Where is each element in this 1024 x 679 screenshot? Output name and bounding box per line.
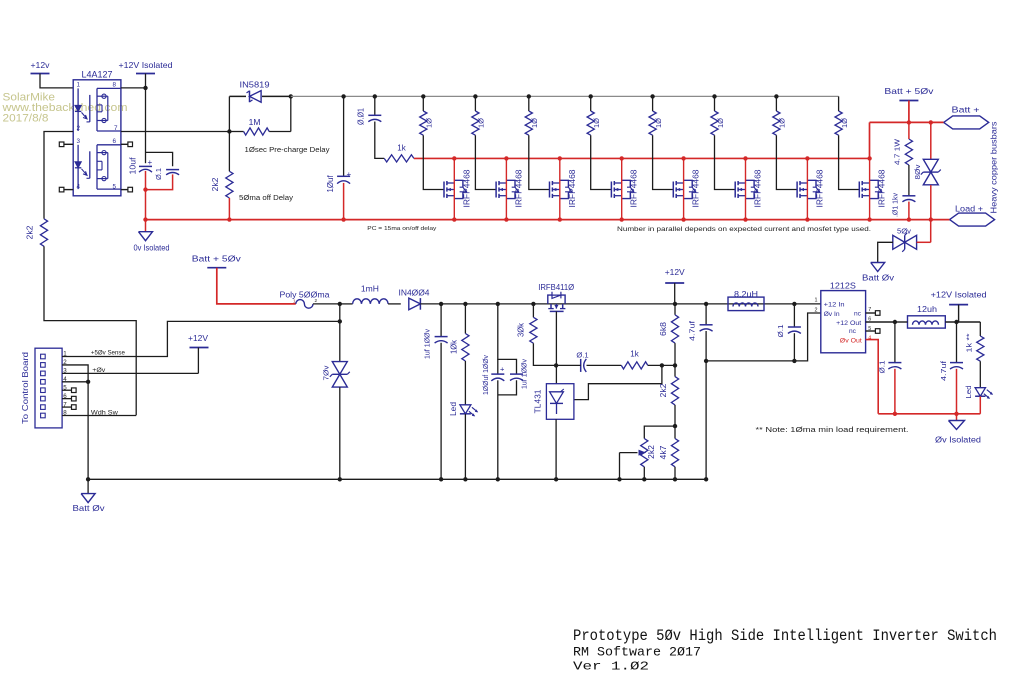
wire red isolated 0v rail [878,413,980,415]
svg-text:1Ø: 1Ø [530,118,539,128]
svg-text:Øv In: Øv In [824,311,840,318]
node col 100uf [496,302,500,306]
TL431 ref path [574,365,662,399]
wire col 3 lower [529,135,550,189]
svg-text:8: 8 [113,82,117,89]
wire 0v bottom rail [88,478,706,480]
node D5 rail [338,477,342,481]
capacitor C7 100uf 100v [491,373,504,375]
node rail col 7 [774,94,778,98]
svg-text:IRFP4468: IRFP4468 [815,169,824,208]
svg-text:IRFP4468: IRFP4468 [630,169,639,208]
svg-text:3Øk: 3Øk [517,322,526,337]
svg-text:Led: Led [449,402,458,416]
wire J1 pin5 nc [62,389,71,391]
node C [338,302,342,306]
svg-text:Poly 5ØØma: Poly 5ØØma [280,291,330,300]
node R4 red [227,217,231,221]
node C12 red [893,412,897,416]
wire J1 pin4 [62,381,88,383]
wire batt50 down red [908,101,910,123]
node A [227,129,231,133]
transistor Q7 IRFP4468 [796,182,798,198]
wire col 8 upper [838,96,840,111]
svg-text:2: 2 [77,125,81,132]
svg-text:1M: 1M [249,117,261,127]
transistor Q4 IRFP4468 [610,182,612,198]
node 12uh out [954,320,958,324]
svg-text:+12 In: +12 In [824,302,845,309]
wire sense line [339,304,341,361]
node C10 mid [704,359,708,363]
connector J1 square 5 [41,388,46,393]
svg-text:Øv Isolated: Øv Isolated [935,436,981,445]
svg-text:1: 1 [815,298,818,304]
svg-text:Ø.1: Ø.1 [154,168,163,180]
ground 0v isolated (right) [949,421,965,430]
svg-text:1Ø: 1Ø [778,118,787,128]
TVS D5 70v [332,362,347,375]
svg-text:+12V: +12V [665,267,685,277]
capacitor C8 1uf 100v [510,373,523,375]
svg-text:12uh: 12uh [917,305,937,314]
node col 10k [463,302,467,306]
ground Batt 0v (right) [871,263,885,272]
wire node A up [228,96,230,131]
svg-text:Batt + 5Øv: Batt + 5Øv [884,86,934,96]
connector J1 square 4 [41,380,46,385]
wire +12v to opto pin1 [40,74,73,88]
svg-text:IRFP4468: IRFP4468 [514,169,523,208]
svg-text:5Øv: 5Øv [897,227,911,236]
wire red source rail [146,219,950,221]
transistor Q8 IRFP4468 [858,182,860,198]
wire fuse to node C [313,303,340,305]
connector J1 square 1 [41,354,46,359]
resistor RG4 10 [587,111,594,135]
node +12V isolated junction [143,86,147,90]
node dcdc 0.1 top [792,302,796,306]
wire red gate rail [414,157,870,159]
svg-text:Batt Øv: Batt Øv [73,504,106,513]
node R9 out [660,363,664,367]
wire J1 pin3 +0v [62,372,198,374]
svg-text:2k2: 2k2 [211,177,220,192]
svg-text:8Øv: 8Øv [913,164,922,179]
wire col 1 lower [423,135,444,189]
svg-text:+12 Out: +12 Out [836,320,861,327]
svg-text:1uf 1ØØv: 1uf 1ØØv [519,359,528,389]
wire C4 bottom [375,122,384,159]
capacitor C5 .01 1kv [902,195,915,197]
node Q2 gate-rail [504,156,508,160]
svg-text:Heavy copper busbars: Heavy copper busbars [990,121,999,213]
wire col 4 lower [591,135,612,189]
svg-text:Ver 1.Ø2: Ver 1.Ø2 [573,660,649,674]
svg-text:IRFP4468: IRFP4468 [568,169,577,208]
svg-text:IRFP4468: IRFP4468 [754,169,763,208]
wire R4 bottom red [228,198,230,220]
svg-text:+12V Isolated: +12V Isolated [119,60,173,70]
wire Q5 drain-source red [683,158,685,219]
node batt50 j1 [907,120,911,124]
svg-text:7Øv: 7Øv [321,365,330,380]
svg-text:IN4ØØ4: IN4ØØ4 [399,289,430,298]
node +12V rail [673,302,677,306]
node Q4 source-rail [620,217,624,221]
node C7 rail [496,477,500,481]
transistor Q2 IRFP4468 [495,182,497,198]
wire opto pin8 to isolated node [121,87,146,89]
svg-text:5: 5 [113,183,117,190]
connector J1 square 8 [41,413,46,418]
svg-text:1Ø: 1Ø [716,118,725,128]
resistor R7 10k [464,304,466,334]
wire batt50 mid red [217,268,296,304]
resistor RG8 10 [835,111,842,135]
wire D5 to 0v rail [339,387,341,479]
node C10 rail [704,477,708,481]
node Q5 source-rail [681,217,685,221]
svg-text:IN5819: IN5819 [240,80,270,90]
wire col 2 upper [474,96,476,111]
svg-text:4.7 1W: 4.7 1W [893,138,902,165]
node D6 rail [463,477,467,481]
wire col 6 lower [715,135,736,189]
wire col 3 upper [528,96,530,111]
svg-text:+: + [347,170,352,179]
opto U1 pin4 nc stub [64,189,73,191]
node Q2 source-rail [504,217,508,221]
resistor RG3 10 [525,111,532,135]
node Q3 source-rail [558,217,562,221]
LED D6 [464,361,466,405]
svg-text:Number in parallel depends on: Number in parallel depends on expected c… [617,226,871,233]
svg-text:1Ø: 1Ø [477,118,486,128]
resistor R12 4k7 [674,426,676,438]
svg-text:PC = 15ma on/off delay: PC = 15ma on/off delay [367,226,436,232]
svg-text:1Øsec Pre-charge Delay: 1Øsec Pre-charge Delay [245,147,331,154]
wire m8 up red [869,122,871,158]
svg-text:IRFB411Ø: IRFB411Ø [538,283,575,292]
svg-text:IRFP4468: IRFP4468 [692,169,701,208]
capacitor C10 4.7uf [705,304,707,325]
wire C2 bottom red [146,174,173,189]
capacitor C3 10uf [337,175,350,177]
svg-text:2: 2 [815,308,818,314]
node Q6 gate-rail [743,156,747,160]
wire J1 pin2 [62,365,88,382]
wire Q6 drain-source red [745,158,747,219]
ground Batt 0v (left) [81,494,95,503]
svg-text:+12V Isolated: +12V Isolated [931,290,987,299]
node Q1 gate-rail [452,156,456,160]
transistor Q3 IRFP4468 [549,182,551,198]
svg-text:1: 1 [293,299,296,304]
node C5 red [907,217,911,221]
wire +12V Isolated down [145,74,147,88]
wire red gnd stub [956,414,958,421]
svg-text:4k7: 4k7 [659,445,668,460]
resistor R4 2k2 (delay) [228,132,230,172]
node Q8 gate-rail [867,156,871,160]
svg-text:Batt + 5Øv: Batt + 5Øv [192,253,242,263]
svg-text:1: 1 [77,82,81,89]
node Q7 source-rail [805,217,809,221]
resistor RG1 10 [420,111,427,135]
svg-text:3: 3 [77,138,81,145]
wire col 6 upper [714,96,716,111]
svg-text:1Øuf: 1Øuf [326,175,335,193]
node Q6 source-rail [743,217,747,221]
ground 0v isolated (top-left) [139,232,153,241]
node Q8 source-rail [867,217,871,221]
svg-text:1mH: 1mH [361,285,379,294]
svg-text:Ø.1: Ø.1 [576,351,588,360]
svg-text:Batt +: Batt + [952,106,980,115]
wire TL431 anode [555,419,557,479]
transistor Q5 IRFP4468 [672,182,674,198]
wire C3 bottom red [343,183,345,220]
capacitor C11 0.1 [793,304,795,327]
opto U1 pin5 nc stub [121,189,128,191]
node TL431 rail [554,477,558,481]
node R12 rail [673,477,677,481]
svg-text:IRFP4468: IRFP4468 [878,169,887,208]
capacitor C2 0.1 [166,169,179,171]
svg-text:5Øma off Delay: 5Øma off Delay [239,195,294,202]
capacitor C12 0.1 out [894,322,896,362]
wire branch to C2 [146,152,173,166]
svg-text:Batt Øv: Batt Øv [862,274,895,283]
wire 0v link to dcdc [706,360,794,362]
node C sense branch [338,319,342,323]
wire +24 rail [441,303,821,305]
connector J1 square 6 [41,396,46,401]
resistor R11 2k2 [674,365,676,376]
svg-text:7: 7 [114,125,118,132]
connector J1 square 2 [41,363,46,368]
svg-text:2017/8/8: 2017/8/8 [3,113,49,125]
svg-text:1Ø: 1Ø [592,118,601,128]
pot R13 2k2 [644,426,675,438]
svg-text:Ø.Ø1: Ø.Ø1 [357,108,366,125]
svg-text:4: 4 [77,183,81,190]
TVS D2 80v [930,122,932,159]
svg-text:Load +: Load + [955,205,983,214]
dcdc U3 box [821,291,866,353]
svg-text:.Ø1 1kv: .Ø1 1kv [891,193,900,217]
connector J1 square 7 [41,405,46,410]
svg-text:1Ø: 1Ø [425,118,434,128]
wire Q9 gate down [555,311,557,383]
node C3 red [341,217,345,221]
wire J1 pin6 nc [62,398,71,400]
node D2 red [929,217,933,221]
node col 1uf [439,302,443,306]
node red C1C2 [143,187,147,191]
wire isolated node down to C1 [145,88,147,163]
svg-text:Ø.1: Ø.1 [878,361,887,374]
node pot rail [642,477,646,481]
svg-text:Wdh Sw: Wdh Sw [91,409,118,416]
svg-text:1Øk: 1Øk [450,339,459,354]
node rail col 4 [589,94,593,98]
wire +12V down [674,283,676,304]
svg-text:6: 6 [113,138,117,145]
wire Q2 drain-source red [505,158,507,219]
node C13 red [954,412,958,416]
svg-text:Led: Led [964,386,973,399]
svg-text:1k: 1k [397,144,406,153]
wire col 1 upper [422,96,424,111]
wire col 5 lower [653,135,674,189]
transistor Q1 IRFP4468 [443,182,445,198]
wire 100uf bottom [498,380,517,395]
wire C4 column [374,96,376,115]
node Q9 gate/ref [554,363,558,367]
wire 100uf top [498,304,517,374]
svg-text:2k2: 2k2 [647,444,656,459]
svg-text:1uf 1ØØv: 1uf 1ØØv [422,329,431,359]
node Q4 gate-rail [620,156,624,160]
svg-text:To Control Board: To Control Board [21,351,30,424]
resistor R14 1k ** [979,322,981,336]
resistor RG2 10 [472,111,479,135]
svg-text:10uf: 10uf [128,157,137,175]
svg-text:Ø.1: Ø.1 [776,325,785,338]
svg-text:RM Software 2Ø17: RM Software 2Ø17 [573,646,701,660]
node rail col 5 [650,94,654,98]
connector J1 box [35,348,62,428]
svg-text:nc: nc [849,328,857,335]
opto U1 pin6 nc stub [121,143,128,145]
wire J1 pin7 nc [62,406,71,408]
node col 4.7uf [704,302,708,306]
resistor RG6 10 [711,111,718,135]
wire col 7 upper [775,96,777,111]
svg-text:L4A127: L4A127 [82,70,113,80]
svg-text:0v Isolated: 0v Isolated [134,244,170,253]
svg-text:2k2: 2k2 [659,383,668,398]
wire Q3 drain-source red [559,158,561,219]
wire col 4 upper [590,96,592,111]
svg-text:2k2: 2k2 [26,225,35,240]
wire red down to 0v isolated rail [145,190,147,220]
resistor R10 6k8 [674,304,676,315]
svg-text:1Ø: 1Ø [840,118,849,128]
node red rail start [143,217,147,221]
svg-text:2: 2 [315,298,318,303]
wire C1 bottom red [145,171,147,190]
svg-text:TL431: TL431 [534,389,543,414]
svg-text:1212S: 1212S [830,280,856,290]
wire col 8 lower [839,135,860,189]
wire J1 gnd drop [87,382,89,494]
svg-text:4.7uf: 4.7uf [939,360,948,381]
wire J1 pin1 +50v sense [62,321,340,356]
wire col 2 lower [475,135,496,189]
opto U1 pin3 nc stub [64,143,73,145]
svg-text:1k **: 1k ** [965,333,974,352]
node C11 bottom [792,359,796,363]
opto U1 channel1 internals [77,88,79,105]
node B [289,94,293,98]
connector J1 square 3 [41,371,46,376]
wire Q8 drain-source red [869,158,871,219]
svg-text:4.7uf: 4.7uf [687,320,696,341]
svg-text:Prototype 5Øv High Side Intell: Prototype 5Øv High Side Intelligent Inve… [573,627,997,645]
node pin6 junction [893,320,897,324]
resistor R2 2k2 (left) [40,219,47,247]
svg-text:6k8: 6k8 [659,321,668,336]
wire C5 bottom red [908,202,910,220]
capacitor C13 4.7uf [956,322,958,362]
svg-text:** Note: 1Øma min load require: ** Note: 1Øma min load requirement. [756,425,909,434]
wire 1M right up [290,96,292,131]
wire Q1 drain-source red [453,158,455,219]
resistor RG5 10 [649,111,656,135]
wire J1 pin8 Wdh Sw [62,415,136,417]
svg-text:1ØØuf 1ØØv: 1ØØuf 1ØØv [481,355,490,395]
wire opto pin7 to node A [121,131,229,133]
resistor R6 4.7 1W [908,122,910,139]
svg-text:IRFP4468: IRFP4468 [462,169,471,208]
svg-text:+12V: +12V [188,333,208,343]
capacitor C4 0.01 [368,114,381,116]
resistor RG7 10 [773,111,780,135]
svg-text:1Ø: 1Ø [654,118,663,128]
wire D3 to ground [878,242,893,262]
node Q3 gate-rail [558,156,562,160]
watermark [1,92,127,125]
node col 30k [531,302,535,306]
node rail col 6 [712,94,716,98]
svg-text:+: + [500,365,505,374]
node R10 bottom [673,363,677,367]
wire opto pin2 left [44,132,73,219]
wire col 7 lower [776,135,797,189]
wire batt+ feed red [870,121,944,123]
wire top gate-drive rail [291,95,839,97]
wire R2 down and right to pin8 net [44,246,136,415]
node C6 rail [439,477,443,481]
shunt ref U2 TL431 [546,384,574,420]
node Q1 source-rail [452,217,456,221]
svg-text:nc: nc [854,311,862,318]
capacitor C9 0.1 [580,359,582,372]
svg-text:+12v: +12v [31,60,51,70]
node rail col 1 [421,94,425,98]
svg-text:1k: 1k [630,350,639,359]
svg-text:+Øv: +Øv [92,367,106,374]
opto-relay U1 box [73,80,121,196]
wire col 5 upper [652,96,654,111]
resistor R8 30k [532,304,534,317]
capacitor C1 10uf [139,165,152,167]
wire Q7 drain-source red [806,158,808,219]
transistor Q6 IRFP4468 [734,182,736,198]
wire dcdc 0v in [794,313,820,361]
svg-text:Øv Out: Øv Out [840,338,862,345]
svg-text:+5Øv Sense: +5Øv Sense [91,350,125,357]
wire R6 to C5 [908,165,910,195]
wire red stub to ground [145,220,147,232]
wire Q4 drain-source red [621,158,623,219]
svg-text:+: + [148,158,153,167]
node Q5 gate-rail [681,156,685,160]
LED D7 [979,361,981,388]
